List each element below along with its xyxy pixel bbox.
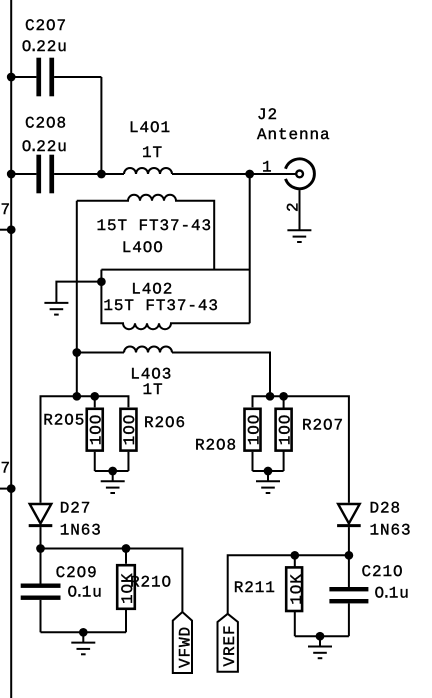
svg-text:R2O8: R2O8 (195, 437, 237, 455)
resistor R210 body (117, 565, 135, 609)
ground at C209/R210 (71, 643, 95, 655)
wire: R205 bottom stub (94, 452, 96, 471)
svg-text:R2O5: R2O5 (43, 411, 85, 429)
svg-text:R2O7: R2O7 (302, 417, 344, 435)
flag VREF (218, 614, 238, 672)
wire: R207 bottom stub (283, 451, 285, 471)
resistor R205 body (87, 409, 103, 451)
svg-text:L4OO: L4OO (122, 239, 164, 257)
svg-text:1N63: 1N63 (60, 522, 102, 540)
wire: R208 bottom stub (252, 452, 254, 471)
wire: C207 to C208 right side (100, 77, 102, 174)
resistor R206 body (120, 409, 136, 451)
svg-text:L4O1: L4O1 (129, 119, 171, 137)
wire: left pair bottom rail (95, 470, 129, 472)
svg-text:1: 1 (262, 158, 273, 176)
node: junction right pair ground (264, 467, 273, 476)
wire: R205 top stub (94, 396, 96, 407)
node: junction R211 top (290, 551, 299, 560)
svg-text:D28: D28 (370, 500, 402, 518)
wire: R211 top stub (294, 555, 296, 567)
svg-text:Antenna: Antenna (257, 126, 331, 144)
connector J2 pin 2 wire (299, 190, 301, 230)
wire: pin 7 stub upper (0, 229, 11, 231)
wire: R206 bottom stub (127, 452, 129, 471)
wire: R210 bottom stub (125, 608, 127, 632)
wire: ground stub bottom right (319, 636, 321, 646)
wire: L403 right to resistor row (172, 353, 270, 397)
wire: long vertical from L400 left down to L403 (76, 201, 78, 353)
svg-text:1N63: 1N63 (370, 522, 412, 540)
wire: right pair bottom rail (253, 470, 284, 472)
wire: R210 top stub (125, 549, 127, 564)
svg-text:15T FT37-43: 15T FT37-43 (97, 217, 213, 235)
capacitor C208 (11, 155, 124, 194)
node: junction bottom right ground (316, 632, 325, 641)
node: junction top rail / long wire (72, 392, 81, 401)
svg-text:VREF: VREF (221, 624, 239, 666)
node: junction on bus at C207 row (7, 73, 16, 82)
node: junction D27/C209 (36, 544, 45, 553)
node: junction R207 top (279, 392, 288, 401)
svg-text:C2O8: C2O8 (25, 115, 67, 133)
inductor L400 top edge with winding (77, 195, 214, 270)
node: junction pin7 lower (7, 484, 16, 493)
wire: right resistor pair top rail (253, 396, 349, 503)
wire: transformer middle shared edge (101, 269, 249, 271)
svg-text:L4O2: L4O2 (131, 281, 173, 299)
wire: ground stub left pair (112, 471, 114, 481)
wire: left resistor pair top rail (41, 396, 129, 503)
node: junction top rail / L403 drop (266, 392, 275, 401)
node: junction D28/C210 (345, 551, 354, 560)
wire: long vertical continues to resistor top row (76, 353, 78, 397)
svg-text:1OO: 1OO (121, 414, 139, 446)
svg-text:1u: 1u (389, 585, 410, 603)
wire: R211/C210 bottom rail (295, 635, 349, 637)
svg-text:7: 7 (1, 201, 12, 219)
wire: L403 left (77, 352, 124, 354)
flag VFWD (173, 612, 192, 673)
ground at left resistor pair (101, 481, 125, 493)
ground at R211/C210 (308, 647, 332, 659)
node: junction center tap (97, 277, 106, 286)
node: junction R210 top (122, 544, 131, 553)
svg-text:22u: 22u (36, 138, 68, 156)
resistor R208 body (245, 409, 261, 451)
connector J2 center pin (296, 171, 303, 178)
svg-text:C2O9: C2O9 (56, 564, 98, 582)
wire: VREF node rail (228, 555, 349, 614)
node: junction left pair ground (108, 467, 117, 476)
node: junction R205 top (90, 392, 99, 401)
svg-text:1OO: 1OO (245, 414, 263, 446)
wire: D28 cathode to node (348, 527, 350, 555)
wire: center tap ground connection (56, 282, 101, 303)
capacitor C210 (329, 555, 368, 636)
svg-text:C2O7: C2O7 (25, 17, 67, 35)
resistor R211 body (286, 567, 302, 611)
svg-text:R2O6: R2O6 (144, 414, 186, 432)
wire: pin 7 stub lower (0, 488, 11, 490)
diode D27 (29, 504, 53, 526)
svg-text:VFWD: VFWD (177, 626, 195, 668)
svg-text:1T: 1T (142, 144, 163, 162)
resistor R207 body (276, 409, 292, 451)
diode D28 (337, 504, 361, 526)
node: junction pin7 upper (7, 225, 16, 234)
node: junction L403 left (72, 348, 81, 357)
svg-text:1OK: 1OK (119, 572, 137, 604)
wire: antenna node down to transformer secondary (249, 174, 251, 323)
wire: VFWD node rail (41, 549, 183, 613)
ground at J2 pin 2 (287, 230, 311, 242)
wire: C209/R210 bottom rail (41, 631, 127, 633)
svg-text:1OO: 1OO (276, 414, 294, 446)
svg-text:C21O: C21O (362, 563, 404, 581)
connector J2 pin 1 wire (250, 173, 297, 175)
node: junction C208/L401 (97, 170, 106, 179)
svg-text:R211: R211 (234, 579, 276, 597)
wire: R207 top stub (283, 396, 285, 409)
wire: ground stub bottom left (82, 632, 84, 642)
svg-text:2: 2 (284, 201, 302, 212)
wire: D27 cathode to node (40, 527, 42, 548)
svg-text:22u: 22u (36, 38, 68, 56)
inductor L401 (124, 168, 172, 174)
connector J2 outer ring (286, 159, 315, 189)
ground at right resistor pair (256, 481, 280, 493)
svg-text:J2: J2 (257, 106, 278, 124)
ground at transformer center tap (44, 303, 68, 315)
inductor L402 bottom edge with winding (101, 270, 249, 330)
svg-text:1OK: 1OK (288, 573, 306, 605)
svg-text:15T FT37-43: 15T FT37-43 (103, 297, 219, 315)
svg-text:D27: D27 (60, 500, 92, 518)
wire: left vertical bus (10, 0, 12, 698)
node: antenna junction (245, 170, 254, 179)
svg-text:1u: 1u (82, 584, 103, 602)
wire: L401 to antenna node (172, 173, 250, 175)
svg-text:7: 7 (1, 460, 12, 478)
capacitor C207 (11, 58, 101, 97)
node: junction on bus at C208 row (7, 170, 16, 179)
svg-text:1T: 1T (143, 381, 164, 399)
svg-text:1OO: 1OO (88, 414, 106, 446)
capacitor C209 (21, 549, 61, 633)
node: junction bottom left ground (79, 628, 88, 637)
inductor L403 (124, 347, 172, 353)
wire: ground stub right pair (267, 471, 269, 481)
wire: R211 bottom stub (294, 612, 296, 637)
